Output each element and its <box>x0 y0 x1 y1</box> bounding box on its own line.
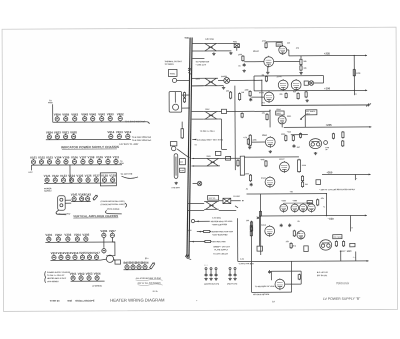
svg-text:.001: .001 <box>261 101 265 104</box>
resistor R628 <box>305 91 307 98</box>
capacitor C662 <box>288 224 291 228</box>
wire <box>209 231 212 233</box>
svg-text:+x: +x <box>323 206 325 209</box>
heater lamp V102 <box>39 159 43 165</box>
svg-text:V863: V863 <box>71 112 78 116</box>
wire rail heavy <box>262 104 369 107</box>
capacitor C681 <box>268 270 271 274</box>
svg-text:F601: F601 <box>233 40 237 43</box>
wire <box>65 199 71 201</box>
tube V686 <box>299 203 307 213</box>
wire <box>254 75 323 77</box>
wire rail +225 mid <box>284 126 371 128</box>
tube V677 6080 oval <box>309 139 321 149</box>
resistor R147 <box>92 194 98 201</box>
heater lamp V206 <box>102 232 106 238</box>
wire <box>253 76 255 91</box>
svg-text:V111: V111 <box>113 155 120 159</box>
svg-text:V143: V143 <box>84 192 91 196</box>
svg-text:ALL HTRS RETURN TO GND: ALL HTRS RETURN TO GND <box>135 277 162 280</box>
wire hook <box>147 122 150 124</box>
svg-text:TO SW601: TO SW601 <box>164 63 173 66</box>
heater lamp V212 <box>59 254 63 260</box>
svg-text:12AX7: 12AX7 <box>277 75 283 78</box>
svg-text:V104: V104 <box>55 155 62 159</box>
wire heater bus B1 <box>31 164 121 166</box>
wire heater bus A1 <box>53 121 147 123</box>
svg-text:V814: V814 <box>107 130 114 134</box>
svg-text:TO CRT: TO CRT <box>233 195 241 198</box>
heater lamp V822 <box>64 134 68 140</box>
wire <box>314 82 324 84</box>
svg-text:WDG: WDG <box>119 162 124 165</box>
tube V674 <box>265 176 275 188</box>
wire <box>195 220 210 222</box>
svg-text:Tektronix: Tektronix <box>336 281 350 285</box>
svg-text:V141: V141 <box>71 193 78 197</box>
svg-text:FAN MTR: FAN MTR <box>172 186 181 189</box>
wire rail mid <box>254 90 309 92</box>
resistor R601 <box>149 262 155 270</box>
svg-text:TO 6.3VAC WDG No1: TO 6.3VAC WDG No1 <box>125 120 146 123</box>
resistor <box>202 230 211 232</box>
svg-text:S.T.O.: S.T.O. <box>153 290 159 293</box>
svg-text:12AX7: 12AX7 <box>253 50 260 53</box>
ground <box>212 52 215 55</box>
arrow <box>369 174 371 176</box>
wire <box>197 231 203 233</box>
heater lamp V214 <box>73 254 77 260</box>
tube V644 <box>278 115 286 125</box>
heater lamp V203 <box>66 236 70 242</box>
svg-text:V124: V124 <box>68 174 75 178</box>
svg-text:TO 6.3VAC WDG No3: TO 6.3VAC WDG No3 <box>132 139 151 142</box>
svg-text:EFF SN 101: EFF SN 101 <box>317 274 327 277</box>
svg-text:ASTIG CABLE: ASTIG CABLE <box>107 208 120 211</box>
svg-text:+225V ELEVATED: +225V ELEVATED <box>212 233 228 236</box>
resistor R616 <box>353 68 355 76</box>
wire heater bus D1 <box>71 280 105 282</box>
callout arrow <box>300 115 305 119</box>
resistor R646 <box>332 133 334 140</box>
svg-text:(PILOT LTS): (PILOT LTS) <box>227 282 237 285</box>
svg-text:12AU: 12AU <box>277 43 282 46</box>
wire <box>284 202 312 204</box>
resistor R666 <box>290 242 292 249</box>
svg-text:V126: V126 <box>85 174 92 178</box>
label box V614 <box>276 43 282 46</box>
heater lamp V833 <box>108 115 112 121</box>
resistor R668 <box>342 240 344 247</box>
svg-text:V812: V812 <box>124 130 131 134</box>
svg-text:V201: V201 <box>45 233 52 237</box>
wire <box>250 262 252 293</box>
heater lamp V125 <box>78 177 82 183</box>
ticks <box>340 251 342 261</box>
wire <box>350 216 352 232</box>
lamp B604 <box>143 264 147 270</box>
label box B <box>180 168 185 172</box>
svg-text:.05: .05 <box>297 220 300 223</box>
wire <box>220 157 240 159</box>
svg-text:V684: V684 <box>282 199 286 202</box>
svg-text:HEATER WDG FOR V620: HEATER WDG FOR V620 <box>211 220 233 223</box>
svg-text:TO 6.3VAC WDG No2: TO 6.3VAC WDG No2 <box>132 136 151 139</box>
heater lamp V123 <box>61 177 65 183</box>
wire <box>192 111 204 113</box>
svg-text:+ −: + − <box>353 256 356 259</box>
box <box>304 246 308 252</box>
heater lamp V216 <box>87 254 91 260</box>
svg-text:+350: +350 <box>326 171 333 174</box>
resistor R607 <box>300 65 302 71</box>
resistor R654 <box>301 175 303 182</box>
component neon box <box>115 260 121 264</box>
svg-text:V661: V661 <box>70 272 77 276</box>
svg-text:V110: V110 <box>105 155 112 159</box>
vertical <box>234 86 236 170</box>
heater lamp V124 <box>70 177 74 183</box>
wire <box>251 96 264 98</box>
tube V634 <box>264 91 274 103</box>
arrow <box>365 89 367 91</box>
wire <box>258 216 260 246</box>
resistor R603 <box>184 97 186 103</box>
svg-text:TK601: TK601 <box>170 72 176 75</box>
svg-text:TO POWER SW: TO POWER SW <box>195 60 209 63</box>
thermistor TH601 capsule <box>174 154 178 179</box>
lamp B602 <box>171 146 175 150</box>
heater lamp V854 <box>55 116 59 122</box>
svg-text:V813: V813 <box>116 130 123 134</box>
svg-text:VERTICAL AMPLIFIER CHASSIS: VERTICAL AMPLIFIER CHASSIS <box>73 214 118 218</box>
winding W3 <box>204 112 219 120</box>
wire <box>271 270 301 272</box>
svg-text:V101: V101 <box>30 156 37 160</box>
svg-text:+350V ELEVATED: +350V ELEVATED <box>212 223 228 226</box>
wire <box>290 261 292 292</box>
box <box>257 246 262 251</box>
heater lamp V128 <box>102 177 106 183</box>
tick below +100 rail <box>354 90 356 95</box>
ground <box>174 182 177 185</box>
heater lamp V813 <box>117 133 121 139</box>
jack J604 <box>229 268 231 270</box>
wire loop right of W3 <box>220 119 222 149</box>
svg-text:V822: V822 <box>117 112 124 116</box>
svg-text:V664: V664 <box>94 272 101 276</box>
tube V654 <box>265 136 275 148</box>
tube V664 <box>279 161 289 173</box>
ground <box>229 52 232 55</box>
heater lamp V664 <box>95 275 99 281</box>
svg-text:47: 47 <box>351 226 353 229</box>
resistor R667 <box>335 240 337 247</box>
resistor R662 <box>259 210 261 217</box>
wire <box>192 85 204 87</box>
wire <box>270 271 272 280</box>
svg-text:V109: V109 <box>96 155 103 159</box>
resistor R626 <box>285 92 287 98</box>
svg-text:x2: x2 <box>195 143 197 146</box>
wire rail +225 top <box>289 54 367 56</box>
wire <box>218 42 234 44</box>
wire <box>250 221 252 262</box>
heater lamp V143 <box>86 196 90 202</box>
svg-text:V205: V205 <box>82 233 89 237</box>
svg-text:V662: V662 <box>78 272 85 276</box>
callout SEE PARTS LIST <box>305 110 316 115</box>
svg-text:V843: V843 <box>81 112 88 116</box>
box F603 <box>221 109 226 113</box>
svg-text:.01: .01 <box>238 64 241 67</box>
resistor R641 <box>285 135 287 142</box>
heater lamp V105 <box>64 159 68 165</box>
svg-text:V121: V121 <box>44 174 51 178</box>
svg-text:(GRATICULE LTS): (GRATICULE LTS) <box>204 282 219 285</box>
svg-text:6AU6: 6AU6 <box>259 91 264 94</box>
heater lamp V111 <box>114 158 118 164</box>
heater lamp V121 <box>45 177 49 183</box>
heater lamp V141 <box>72 196 76 202</box>
wire <box>192 42 204 44</box>
svg-text:POWER SUPPLY CHASSIS: POWER SUPPLY CHASSIS <box>47 271 71 274</box>
heater lamp V207 <box>110 232 114 238</box>
resistor R665 <box>293 230 295 237</box>
heater lamp V822 <box>118 115 122 121</box>
svg-text:INDICATOR POWER SUPPLY CHAS: INDICATOR POWER SUPPLY CHASSIS <box>61 145 119 149</box>
svg-text:HEATER WIRING DIAGRAM: HEATER WIRING DIAGRAM <box>110 297 165 302</box>
wire <box>191 165 205 167</box>
resistor R681 <box>298 274 300 281</box>
arrow <box>367 260 369 262</box>
wire <box>285 283 301 285</box>
winding W4 <box>205 158 220 166</box>
heater lamp V843 <box>83 116 87 122</box>
svg-text:V821: V821 <box>62 130 69 134</box>
lamp B603 on core <box>197 181 201 185</box>
jack J602 <box>210 268 212 270</box>
svg-text:+100: +100 <box>324 87 331 90</box>
wire <box>218 118 221 120</box>
transformer core bottom ticks <box>185 254 191 260</box>
wire stub <box>192 57 204 59</box>
callout box 1 <box>276 111 284 115</box>
wire <box>192 50 204 52</box>
heater lamp V127 <box>94 177 98 183</box>
jack J601 <box>205 268 207 270</box>
svg-text:HTR BUS RETURN: HTR BUS RETURN <box>253 293 270 296</box>
arrow <box>365 215 367 217</box>
wire box around V128 V129 <box>100 173 116 186</box>
resistor <box>204 240 212 242</box>
lamp B600 <box>172 78 176 82</box>
resistor R661 <box>317 199 319 206</box>
heater lamp V103 <box>47 159 51 165</box>
heater lamp V129 <box>111 177 115 183</box>
svg-text:V823: V823 <box>54 130 61 134</box>
component box on W4 feed <box>226 156 231 160</box>
svg-text:[2 WIRES]: [2 WIRES] <box>93 285 102 288</box>
heater lamp V661 <box>71 275 75 281</box>
winding W5 6.3V <box>204 202 219 210</box>
capacitor C661 <box>280 224 283 228</box>
svg-text:HEATER WDG 6.3VAC: HEATER WDG 6.3VAC <box>47 277 67 280</box>
svg-text:+ LINE 117V: + LINE 117V <box>195 63 206 66</box>
wire <box>237 218 239 261</box>
svg-text:V127: V127 <box>93 174 100 178</box>
wire <box>252 141 265 143</box>
wire <box>218 110 221 112</box>
heater lamp V213 <box>66 254 70 260</box>
wire <box>291 134 308 136</box>
svg-text:V128: V128 <box>101 174 108 178</box>
svg-text:B.P. LIST OF: B.P. LIST OF <box>317 271 329 274</box>
resistor R643 <box>299 133 301 139</box>
heater lamp V863 <box>73 116 77 122</box>
lamp B601 <box>125 264 129 270</box>
motor B601 <box>173 104 179 110</box>
svg-text:V103: V103 <box>46 155 53 159</box>
heater lamp V106 <box>72 159 76 165</box>
wire <box>244 61 264 63</box>
svg-text:V824: V824 <box>46 130 53 134</box>
svg-text:V214: V214 <box>72 251 79 255</box>
wire <box>261 80 263 105</box>
wire <box>287 49 289 51</box>
glyph rail end <box>366 103 371 106</box>
resistor R605 <box>242 55 244 62</box>
connector J101 socket <box>58 196 66 211</box>
wire <box>30 165 32 170</box>
capacitor C605 <box>243 63 246 67</box>
svg-text:CABLE TO PIN7: CABLE TO PIN7 <box>56 212 70 215</box>
svg-text:V217: V217 <box>93 251 100 255</box>
ground <box>299 72 302 75</box>
wire <box>182 94 190 96</box>
resistor R663 <box>250 221 252 227</box>
wire <box>274 60 300 62</box>
heater lamp V823 <box>72 134 76 140</box>
heater lamp V205 <box>84 236 88 242</box>
ground <box>248 146 251 149</box>
jack J603 <box>215 268 217 270</box>
svg-text:V107: V107 <box>80 155 87 159</box>
tube V694 <box>265 225 275 237</box>
svg-text:5651: 5651 <box>287 115 291 118</box>
label box VOLTAGE ADJ <box>333 235 342 239</box>
heater lamp V109 <box>97 158 101 164</box>
lamp <box>324 141 328 145</box>
wire rail <box>244 156 298 158</box>
capacitor C653 <box>250 183 253 187</box>
wire <box>219 209 236 211</box>
svg-text:V833: V833 <box>107 112 114 116</box>
junction ticks on core <box>188 68 191 74</box>
svg-text:V102: V102 <box>38 156 45 160</box>
wire <box>267 67 269 72</box>
ground <box>314 152 317 155</box>
tube V624A <box>278 79 288 91</box>
vertical interconnect <box>353 55 355 90</box>
wire <box>192 85 204 87</box>
wire rail +100 <box>310 89 367 91</box>
tube V604 <box>264 56 274 68</box>
heater lamp V841 <box>100 116 104 122</box>
wire heater bus D2 <box>124 269 150 271</box>
svg-text:6.3V ELEV TO +225V: 6.3V ELEV TO +225V <box>119 143 139 146</box>
resistor R602 <box>183 92 185 99</box>
svg-text:+212: +212 <box>287 130 291 133</box>
svg-text:THERMAL CUTOUT: THERMAL CUTOUT <box>164 60 182 63</box>
component box S601 <box>170 142 177 146</box>
svg-text:.01: .01 <box>245 188 248 191</box>
svg-text:V129: V129 <box>109 174 116 178</box>
heater lamp V821 <box>55 134 59 140</box>
svg-text:4: 4 <box>356 177 357 180</box>
svg-text:TO HEATERS OF V698: TO HEATERS OF V698 <box>255 285 274 288</box>
resistor R651 <box>265 160 267 167</box>
svg-text:+85: +85 <box>290 190 293 193</box>
resistor R664 <box>250 226 252 232</box>
heater lamp V142 <box>80 196 84 202</box>
svg-text:NOT AT ALL S/N RANGES: NOT AT ALL S/N RANGES <box>138 282 162 285</box>
svg-text:V207: V207 <box>109 229 116 233</box>
wire heater bus B4 <box>71 201 90 203</box>
fuse F601 <box>234 44 239 48</box>
wire <box>300 56 302 58</box>
svg-text:+225: +225 <box>324 53 331 56</box>
svg-text:6.3VAC HTR BUS: 6.3VAC HTR BUS <box>239 262 255 265</box>
wire <box>230 79 262 81</box>
resistor R644 <box>247 138 249 145</box>
svg-text:* * *: * * * <box>204 264 207 267</box>
heater lamp V110 <box>106 158 110 164</box>
wire <box>325 194 327 216</box>
svg-text:T601: T601 <box>184 37 190 40</box>
svg-text:V105: V105 <box>63 155 70 159</box>
svg-text:6AU6: 6AU6 <box>261 224 266 227</box>
transformer T601 core <box>186 38 191 259</box>
lamp B602 <box>131 264 135 270</box>
svg-text:6.3V 1A: 6.3V 1A <box>209 197 216 200</box>
wire <box>218 85 223 87</box>
svg-text:TYPE 50: TYPE 50 <box>50 300 60 303</box>
fuse F602 <box>224 78 230 84</box>
wire <box>281 125 283 127</box>
capacitor C622 <box>249 98 252 102</box>
label box A <box>180 159 186 165</box>
svg-text:LV POWER SUPPLY “B”: LV POWER SUPPLY “B” <box>323 297 361 301</box>
heater lamp V107 <box>81 159 85 165</box>
resistor R624 <box>238 92 240 100</box>
svg-text:V600 SERIES: V600 SERIES <box>47 280 59 283</box>
svg-text:THE: THE <box>67 300 72 303</box>
svg-text:TO CRT HTR: TO CRT HTR <box>121 173 133 176</box>
resistor small <box>241 112 243 118</box>
arrow <box>369 126 371 128</box>
wire <box>252 291 292 293</box>
resistor R622 <box>249 90 251 97</box>
svg-text:V123: V123 <box>60 174 67 178</box>
wire rail bottom <box>238 260 369 263</box>
svg-text:HEATER WDG FOR V634: HEATER WDG FOR V634 <box>211 230 233 233</box>
tall resistor R652 <box>298 159 301 173</box>
svg-text:NE-2: NE-2 <box>292 244 296 247</box>
svg-text:V841: V841 <box>98 112 105 116</box>
svg-text:SW601: SW601 <box>221 75 227 78</box>
wire loop under socket <box>56 210 66 215</box>
